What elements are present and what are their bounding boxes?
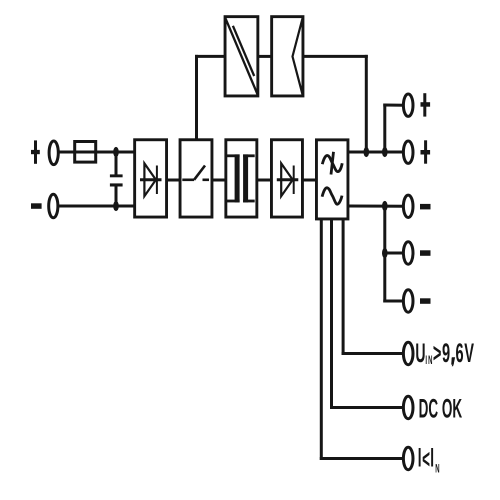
AC symbol bottom (sine): [322, 188, 342, 204]
wire DC OK horizontal: [332, 406, 403, 409]
wire UIN horizontal: [343, 352, 402, 355]
wire I&lt;IN horizontal: [321, 457, 402, 460]
wire I&lt;IN vertical: [320, 220, 323, 459]
wire input - rail: [59, 205, 133, 208]
svg-text:IN: IN: [425, 354, 433, 368]
output terminal - row4: [403, 242, 413, 264]
polarity symbol - (input): [31, 203, 42, 209]
AC symbol top (chopped sine): [322, 152, 342, 175]
signal terminal DC OK: [403, 396, 413, 418]
chevron symbol: [293, 17, 304, 97]
node + branch: [382, 147, 388, 157]
plus symbol row1: [421, 93, 431, 116]
output terminal - row3: [403, 195, 413, 217]
node input + junction: [113, 147, 119, 157]
regulator symbol diagonals: [225, 17, 258, 95]
wire + branch to terminal row1: [385, 104, 403, 107]
block U4 rectifier: [271, 140, 302, 217]
polarity symbol + (input): [31, 140, 40, 163]
block regulator (top A): [225, 17, 258, 96]
wire stub to terminal row5: [385, 300, 403, 303]
diode D2: [277, 163, 299, 196]
wire B4-B5: [304, 179, 315, 182]
feedback wire drop to + rail: [365, 56, 368, 152]
output terminal - row5: [403, 290, 413, 312]
svg-text:I: I: [418, 442, 422, 472]
feedback wire top right: [304, 55, 366, 58]
wire output + rail: [349, 151, 402, 154]
svg-text:U: U: [415, 338, 425, 368]
switch S1: [182, 166, 209, 180]
feedback wire top left: [197, 55, 224, 58]
node - branch lower: [382, 248, 388, 258]
minus symbol row5: [420, 298, 431, 304]
minus symbol row3: [420, 204, 431, 210]
input terminal -: [49, 194, 58, 218]
wire between top blocks: [259, 55, 270, 58]
wire UIN vertical: [342, 220, 345, 354]
wire - branch down: [383, 206, 386, 301]
capacitor C1: [110, 174, 123, 186]
block U2 switching stage: [180, 140, 212, 217]
signal terminal UIN: [403, 342, 413, 364]
svg-text:DC OK: DC OK: [419, 394, 463, 424]
svg-text:I: I: [430, 442, 434, 472]
label UIN>9,6V: [415, 337, 474, 368]
plus symbol row2: [421, 140, 431, 163]
node - branch: [382, 201, 388, 211]
wire capacitor top lead: [115, 152, 118, 174]
fuse F1: [75, 142, 96, 163]
wire DC OK vertical: [330, 220, 333, 408]
block U5 output stage: [316, 140, 348, 219]
node input - junction: [113, 201, 119, 211]
wire capacitor bottom lead: [115, 187, 118, 207]
svg-text:<: <: [422, 444, 430, 474]
svg-text:N: N: [435, 462, 439, 476]
block feedback isolator (top B): [272, 17, 303, 96]
wire B1-B2: [168, 179, 179, 182]
output terminal + row1: [403, 94, 413, 116]
minus symbol row4: [420, 250, 431, 256]
block U1 input protection: [135, 140, 167, 217]
wire stub to terminal row4: [385, 252, 403, 255]
wire input + rail: [60, 151, 133, 154]
node feedback / + rail: [364, 147, 370, 157]
transformer T1: [227, 154, 255, 202]
wire output - rail: [349, 205, 402, 208]
output terminal + row2: [403, 141, 413, 163]
label I<IN: [418, 442, 440, 476]
block U3 transformer stage: [226, 140, 257, 217]
signal terminal I&lt;IN: [403, 447, 413, 469]
wire + branch up: [383, 105, 386, 152]
input terminal +: [49, 141, 58, 165]
wire B2-B3: [213, 179, 224, 182]
diode D1: [140, 163, 162, 196]
wire B3-B4: [258, 179, 270, 182]
feedback wire from switch top: [195, 56, 198, 138]
